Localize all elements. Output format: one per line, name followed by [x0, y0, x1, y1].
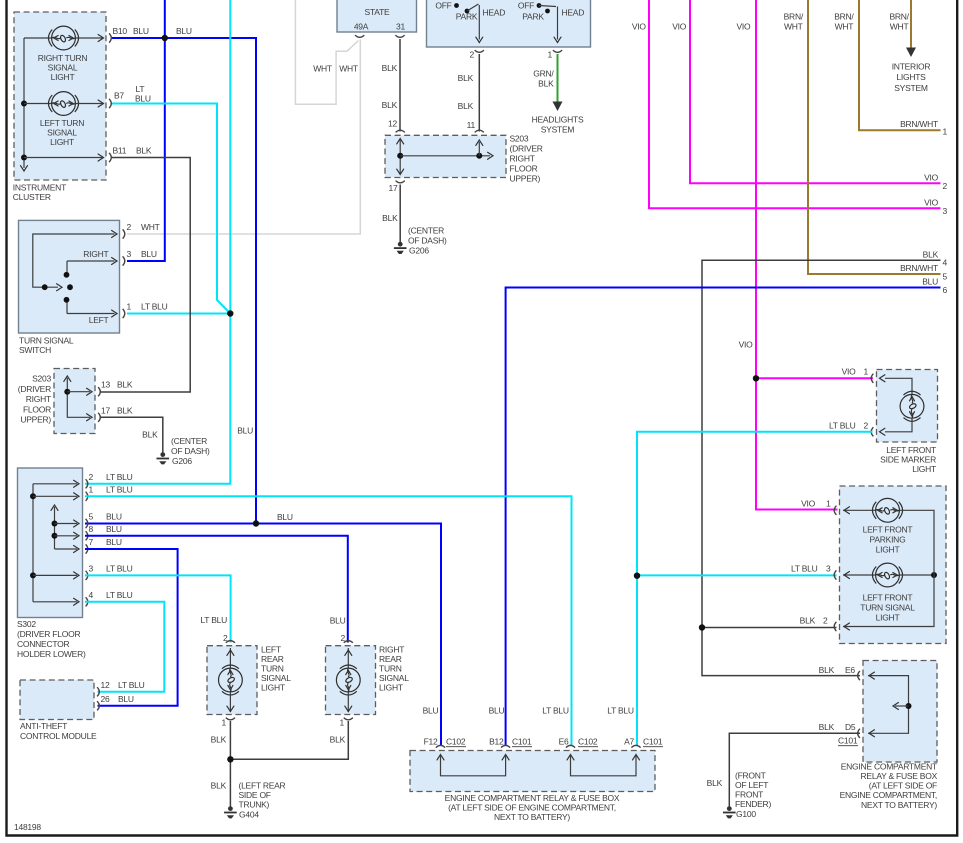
anti-theft control module box	[20, 680, 97, 741]
svg-text:BLU: BLU	[176, 26, 192, 36]
svg-text:SIGNAL: SIGNAL	[379, 673, 409, 683]
wire BLK rear lights ground to G404	[211, 721, 349, 806]
fuse box internal link E6 to A7	[567, 755, 640, 776]
svg-text:LEFT TURN: LEFT TURN	[40, 118, 84, 128]
svg-text:LIGHT: LIGHT	[261, 683, 285, 693]
svg-text:BLU: BLU	[922, 277, 938, 287]
pin 3 connector turn signal switch	[123, 249, 157, 266]
svg-text:HEADLIGHTS: HEADLIGHTS	[532, 115, 584, 125]
svg-text:BLK: BLK	[211, 735, 227, 745]
svg-text:1: 1	[222, 718, 227, 728]
svg-text:PARK: PARK	[522, 12, 544, 22]
S203 internal bus	[397, 139, 493, 175]
svg-text:3: 3	[127, 249, 132, 259]
arrow to headlights system	[532, 102, 584, 135]
wire VIO branch to side marker pin 1	[753, 367, 873, 382]
svg-text:BRN/WHT: BRN/WHT	[900, 263, 938, 273]
pin D5 connector right fuse box	[819, 722, 860, 746]
svg-text:BLK: BLK	[117, 380, 133, 390]
left rear turn signal light box	[207, 644, 291, 714]
svg-text:SIDE OF: SIDE OF	[239, 790, 271, 800]
svg-text:BLK: BLK	[923, 249, 939, 259]
svg-text:17: 17	[101, 405, 110, 415]
svg-text:LT: LT	[136, 84, 145, 94]
svg-text:17: 17	[389, 183, 398, 193]
svg-text:RIGHT: RIGHT	[83, 249, 108, 259]
svg-text:LEFT FRONT: LEFT FRONT	[886, 445, 936, 455]
pin F12 connector C102	[423, 706, 466, 748]
wire BLU vertical from top to turn signal switch pin 3	[127, 0, 165, 261]
svg-text:1: 1	[340, 718, 345, 728]
turn signal switch internal contacts	[33, 231, 117, 325]
svg-text:TURN SIGNAL: TURN SIGNAL	[860, 603, 915, 613]
instrument cluster box	[13, 12, 106, 202]
svg-text:STATE: STATE	[365, 7, 390, 17]
left rear turn signal lamp	[219, 648, 243, 712]
instrument cluster internal bus	[21, 38, 28, 171]
svg-text:13: 13	[101, 380, 110, 390]
pin 8 connector S302	[86, 524, 122, 541]
left front side marker light box	[877, 370, 938, 475]
wire BLU pin 7 S302 to anti-theft pin 26	[85, 549, 178, 706]
left front parking light lamp	[843, 498, 934, 569]
svg-text:PARKING: PARKING	[870, 535, 906, 545]
svg-text:3: 3	[89, 563, 94, 573]
svg-text:F12: F12	[424, 737, 438, 747]
svg-text:1: 1	[548, 50, 553, 60]
pin 1 connector S302	[86, 484, 133, 501]
svg-text:1: 1	[864, 367, 869, 377]
svg-text:TURN SIGNAL: TURN SIGNAL	[19, 336, 74, 346]
pin 31 connector	[395, 35, 404, 37]
svg-text:BLK: BLK	[707, 778, 723, 788]
svg-text:S302: S302	[17, 619, 36, 629]
junction dot BLU at B10	[162, 35, 168, 41]
pin 1 connector left front parking	[801, 498, 836, 515]
svg-text:FLOOR: FLOOR	[510, 164, 538, 174]
svg-text:WHT: WHT	[313, 64, 332, 74]
svg-text:BLU: BLU	[277, 512, 293, 522]
wire BLU pin 5 S302 to fuse box F12	[85, 512, 441, 746]
svg-text:BLK: BLK	[538, 79, 554, 89]
svg-text:LIGHT: LIGHT	[876, 545, 900, 555]
wire VIO 2 to right edge	[672, 0, 947, 191]
svg-text:BLU: BLU	[141, 249, 157, 259]
svg-text:TURN: TURN	[261, 663, 284, 673]
S302 internal bus left (lt blu group)	[30, 480, 79, 605]
svg-text:S203: S203	[510, 134, 529, 144]
pin 2 connector left front turn ground	[834, 622, 836, 631]
svg-text:6: 6	[943, 285, 948, 295]
wire VIO 3 to right edge	[632, 0, 948, 216]
svg-text:LIGHT: LIGHT	[379, 683, 403, 693]
svg-text:A7: A7	[624, 737, 634, 747]
svg-text:2: 2	[89, 472, 94, 482]
pin 2 connector S302	[86, 472, 133, 489]
svg-text:UPPER): UPPER)	[20, 415, 51, 425]
svg-text:LT BLU: LT BLU	[200, 615, 227, 625]
pin B10 connector	[109, 26, 149, 43]
svg-text:LT BLU: LT BLU	[106, 484, 133, 494]
svg-text:OF DASH): OF DASH)	[408, 236, 447, 246]
lamp left turn signal indicator	[24, 92, 104, 147]
svg-text:WHT: WHT	[890, 22, 909, 32]
svg-text:VIO: VIO	[632, 22, 647, 32]
pin B11 connector	[109, 146, 152, 163]
wire LT BLU pin 4 S302 to anti-theft pin 12	[85, 602, 164, 692]
svg-text:BLK: BLK	[330, 735, 346, 745]
svg-text:G404: G404	[239, 810, 259, 820]
svg-text:(DRIVER: (DRIVER	[510, 144, 543, 154]
pin 3 connector left front turn	[834, 570, 836, 579]
ground G404 (left rear side of trunk)	[224, 780, 285, 819]
pin 26 connector anti-theft	[97, 694, 134, 711]
svg-text:REAR: REAR	[261, 654, 284, 664]
svg-text:12: 12	[388, 119, 397, 129]
svg-text:FRONT: FRONT	[735, 790, 763, 800]
svg-text:G100: G100	[736, 809, 756, 819]
svg-text:VIO: VIO	[739, 340, 754, 350]
lamp right turn signal indicator	[24, 26, 104, 82]
svg-text:CLUSTER: CLUSTER	[13, 192, 51, 202]
svg-text:LT BLU: LT BLU	[106, 590, 133, 600]
pin 1 connector right rear	[340, 718, 353, 728]
svg-text:BLK: BLK	[819, 665, 835, 675]
svg-text:C102: C102	[446, 737, 466, 747]
svg-text:D5: D5	[845, 722, 856, 732]
svg-text:GRN/: GRN/	[533, 69, 554, 79]
pin 1 connector headlight switch	[548, 50, 563, 60]
engine compartment relay and fuse box bottom	[410, 751, 655, 822]
svg-text:C101: C101	[512, 737, 532, 747]
svg-text:1: 1	[826, 498, 831, 508]
pin 3 connector S302	[86, 563, 133, 580]
svg-text:BLK: BLK	[382, 213, 398, 223]
svg-text:ENGINE COMPARTMENT,: ENGINE COMPARTMENT,	[840, 790, 937, 800]
svg-text:(AT LEFT SIDE OF: (AT LEFT SIDE OF	[869, 781, 937, 791]
svg-text:OFF: OFF	[518, 1, 534, 11]
svg-text:RIGHT TURN: RIGHT TURN	[38, 53, 88, 63]
svg-text:BLU: BLU	[489, 706, 505, 716]
junction dot LT BLU at left front turn feed	[634, 563, 837, 579]
svg-text:BLK: BLK	[458, 73, 474, 83]
svg-text:LT BLU: LT BLU	[118, 680, 145, 690]
ground G206 (center of dash) middle	[394, 226, 447, 256]
svg-text:BRN/: BRN/	[784, 12, 804, 22]
svg-text:LEFT: LEFT	[261, 644, 281, 654]
svg-text:LEFT FRONT: LEFT FRONT	[863, 525, 913, 535]
svg-text:VIO: VIO	[924, 197, 939, 207]
svg-text:LIGHTS: LIGHTS	[896, 72, 926, 82]
svg-text:BLK: BLK	[136, 146, 152, 156]
svg-text:FLOOR: FLOOR	[23, 404, 51, 414]
S203 left internal bus	[64, 376, 92, 421]
pin A7 connector C101	[607, 706, 663, 748]
wire WHT from turn signal switch pin 2 to 49A	[127, 40, 360, 235]
turn signal switch box	[19, 220, 120, 355]
svg-text:(LEFT REAR: (LEFT REAR	[239, 780, 286, 790]
pin B12 connector C101	[489, 706, 532, 748]
svg-text:BLU: BLU	[118, 694, 134, 704]
svg-text:REAR: REAR	[379, 654, 402, 664]
svg-text:LIGHT: LIGHT	[876, 613, 900, 623]
svg-text:LT BLU: LT BLU	[106, 472, 133, 482]
pin 2 connector side marker	[829, 420, 873, 436]
svg-text:12: 12	[101, 680, 110, 690]
wire LT BLU main vertical to S302 pin 2	[85, 0, 230, 484]
svg-text:3: 3	[943, 206, 948, 216]
svg-text:VIO: VIO	[736, 22, 751, 32]
wire WHT from top edge to 49A (jog)	[295, 0, 358, 104]
svg-text:HOLDER LOWER): HOLDER LOWER)	[17, 649, 86, 659]
fuse box internal link F12 to B12	[437, 755, 509, 776]
svg-text:ENGINE COMPARTMENT: ENGINE COMPARTMENT	[841, 761, 937, 771]
svg-text:VIO: VIO	[842, 367, 857, 377]
svg-text:11: 11	[467, 120, 476, 130]
pin 17 connector S203 left	[98, 405, 133, 422]
svg-text:3: 3	[826, 563, 831, 573]
svg-text:BRN/: BRN/	[834, 12, 854, 22]
svg-text:5: 5	[89, 512, 94, 522]
svg-text:SYSTEM: SYSTEM	[894, 83, 928, 93]
svg-text:HEAD: HEAD	[483, 8, 506, 18]
wire BLK from S203 pin 17 to G206	[382, 185, 400, 242]
wire BLK 4 from right edge to left front turn light and fuse box E6	[702, 249, 948, 675]
pin 12 connector anti-theft	[97, 680, 145, 697]
svg-text:E6: E6	[559, 737, 569, 747]
svg-text:LIGHT: LIGHT	[50, 137, 74, 147]
svg-text:BLU: BLU	[106, 537, 122, 547]
wire GRN/BLK to headlights system	[533, 54, 557, 103]
svg-text:UPPER): UPPER)	[510, 174, 541, 184]
svg-text:BLU: BLU	[106, 524, 122, 534]
svg-text:B12: B12	[489, 737, 504, 747]
wire BLK from D5 to G100	[707, 733, 860, 806]
pin 2 connector right rear	[344, 641, 353, 643]
svg-text:BLK: BLK	[800, 615, 816, 625]
wire BLK from B11 to S203 pin 13	[100, 158, 191, 393]
pin 5 connector S302	[86, 512, 122, 529]
ignition switch box STATE (clipped at top)	[337, 0, 417, 32]
pin 2 connector headlight switch	[470, 50, 484, 60]
svg-text:2: 2	[823, 615, 828, 625]
svg-text:OFF: OFF	[435, 1, 451, 11]
svg-text:BLK: BLK	[458, 101, 474, 111]
svg-text:1: 1	[943, 127, 948, 137]
wire LT BLU pin 3 S302 to left rear turn signal	[85, 575, 231, 642]
svg-text:C101: C101	[838, 736, 858, 746]
svg-text:BRN/WHT: BRN/WHT	[900, 119, 938, 129]
junction dot LT BLU at turn signal switch pin 1	[227, 310, 233, 316]
wire BRN/WHT to interior lights system	[889, 0, 911, 48]
svg-text:(DRIVER: (DRIVER	[18, 384, 51, 394]
svg-text:(DRIVER FLOOR: (DRIVER FLOOR	[17, 629, 80, 639]
svg-text:BLU: BLU	[135, 94, 151, 104]
svg-text:RIGHT: RIGHT	[379, 644, 404, 654]
svg-text:LT BLU: LT BLU	[141, 302, 168, 312]
svg-text:SIGNAL: SIGNAL	[261, 673, 291, 683]
svg-text:INTERIOR: INTERIOR	[892, 62, 931, 72]
svg-text:2: 2	[943, 181, 948, 191]
svg-text:OF LEFT: OF LEFT	[735, 780, 768, 790]
svg-text:26: 26	[101, 694, 110, 704]
svg-text:LT BLU: LT BLU	[829, 420, 856, 430]
svg-text:7: 7	[89, 537, 94, 547]
headlight switch box (clipped at top)	[427, 0, 591, 47]
svg-text:NEXT TO BATTERY): NEXT TO BATTERY)	[494, 812, 570, 822]
svg-text:SYSTEM: SYSTEM	[541, 125, 575, 135]
switch B contacts and wiper	[537, 3, 561, 42]
svg-text:4: 4	[943, 258, 948, 268]
svg-text:RIGHT: RIGHT	[26, 394, 51, 404]
svg-text:RELAY & FUSE BOX: RELAY & FUSE BOX	[861, 771, 938, 781]
wire BLK from STATE pin 31 to S203 pin 12	[382, 39, 400, 132]
ground G206 (center of dash) left	[157, 436, 211, 466]
wire BLU from B10 via junction to pin 5 S302 and F12	[112, 26, 256, 524]
svg-text:RIGHT: RIGHT	[510, 154, 535, 164]
svg-text:LIGHT: LIGHT	[912, 464, 936, 474]
svg-text:2: 2	[127, 222, 132, 232]
wire LT BLU turn signal switch pin 1	[127, 313, 230, 315]
wire BLU pin 8 S302 to right rear turn signal	[85, 536, 348, 643]
pin 17 connector S203	[389, 181, 405, 193]
svg-text:31: 31	[396, 22, 405, 32]
S302 internal bus right (blu group)	[51, 505, 79, 553]
svg-text:B7: B7	[114, 91, 124, 101]
svg-text:WHT: WHT	[339, 64, 358, 74]
wire BLK from switch pin 2 to S203 pin 11	[458, 54, 480, 132]
splice S203 (driver right floor upper) left	[18, 369, 95, 434]
svg-text:BLU: BLU	[330, 615, 346, 625]
svg-text:(CENTER: (CENTER	[171, 436, 207, 446]
svg-text:2: 2	[864, 420, 869, 430]
svg-text:(FRONT: (FRONT	[735, 770, 766, 780]
splice S203 (driver right floor upper) middle	[385, 134, 543, 184]
left front parking/turn signal light box	[840, 486, 947, 644]
svg-text:5: 5	[943, 272, 948, 282]
svg-text:BLK: BLK	[117, 405, 133, 415]
svg-text:2: 2	[470, 50, 475, 60]
svg-text:CONNECTOR: CONNECTOR	[17, 639, 69, 649]
svg-text:INSTRUMENT: INSTRUMENT	[13, 183, 66, 193]
svg-text:FENDER): FENDER)	[735, 799, 771, 809]
wire VIO 1 to left front parking light (vertical from top)	[736, 0, 837, 510]
svg-text:C101: C101	[643, 737, 663, 747]
wire LT BLU pin 1 S302 to fuse box E6	[85, 496, 572, 745]
wire BRN/WHT 5 to right edge	[784, 0, 948, 282]
pin 1 connector turn signal switch	[123, 302, 168, 319]
right rear turn signal light box	[326, 644, 410, 714]
pin 1 connector left rear	[222, 718, 235, 728]
svg-text:BRN/: BRN/	[889, 12, 909, 22]
connector S302 (driver floor connector holder lower) box	[17, 468, 86, 659]
pin 13 connector S203 left	[98, 380, 133, 397]
right rear turn signal lamp	[336, 648, 360, 712]
pin E6 connector right fuse box	[858, 671, 860, 680]
pin B7 connector	[109, 84, 151, 108]
svg-text:49A: 49A	[354, 22, 369, 32]
svg-text:BLU: BLU	[423, 706, 439, 716]
svg-text:NEXT TO BATTERY): NEXT TO BATTERY)	[861, 800, 937, 810]
pin 2 connector turn signal switch	[123, 222, 160, 239]
svg-text:SWITCH: SWITCH	[19, 345, 51, 355]
svg-text:SIGNAL: SIGNAL	[48, 63, 78, 73]
instrument cluster B11 lead	[24, 154, 104, 161]
svg-text:LIGHT: LIGHT	[51, 72, 75, 82]
pin 1 connector side marker	[871, 374, 873, 383]
svg-text:CONTROL MODULE: CONTROL MODULE	[20, 731, 97, 741]
svg-text:HEAD: HEAD	[562, 8, 585, 18]
svg-text:B11: B11	[113, 146, 127, 156]
side marker lamp	[880, 375, 924, 436]
svg-text:BLU: BLU	[133, 26, 149, 36]
wire BLK branch to left front turn signal pin 2	[699, 615, 837, 630]
svg-text:WHT: WHT	[141, 222, 160, 232]
left front turn signal light lamp	[843, 563, 937, 630]
svg-text:BLU: BLU	[237, 426, 253, 436]
wire LT BLU to side marker pin 2 from A7 net	[637, 432, 873, 746]
wire BLK from pin 17 to G206 left	[101, 417, 163, 452]
wire BLU 6 from right edge to fuse box B12	[506, 277, 948, 746]
pin 7 connector S302	[86, 537, 122, 554]
svg-text:LEFT FRONT: LEFT FRONT	[863, 593, 913, 603]
wire BRN/WHT 1 to right edge	[834, 0, 947, 137]
svg-text:LT BLU: LT BLU	[542, 706, 569, 716]
svg-text:WHT: WHT	[835, 22, 854, 32]
svg-text:148198: 148198	[14, 822, 41, 832]
svg-text:WHT: WHT	[784, 22, 803, 32]
svg-text:S203: S203	[32, 374, 51, 384]
svg-text:LT BLU: LT BLU	[607, 706, 634, 716]
svg-text:SIDE MARKER: SIDE MARKER	[880, 455, 936, 465]
svg-text:B10: B10	[113, 26, 128, 36]
svg-text:LT BLU: LT BLU	[791, 563, 818, 573]
svg-text:OF DASH): OF DASH)	[171, 446, 210, 456]
svg-text:1: 1	[89, 484, 94, 494]
svg-text:BLK: BLK	[819, 722, 835, 732]
svg-text:BLK: BLK	[382, 63, 398, 73]
svg-text:(CENTER: (CENTER	[408, 226, 444, 236]
svg-text:8: 8	[89, 524, 94, 534]
svg-text:BLK: BLK	[211, 780, 227, 790]
svg-text:TURN: TURN	[379, 663, 402, 673]
svg-text:LT BLU: LT BLU	[106, 563, 133, 573]
arrow to interior lights system	[892, 48, 931, 93]
pin E6 connector C102	[542, 706, 598, 748]
svg-text:TRUNK): TRUNK)	[239, 800, 270, 810]
svg-text:ENGINE COMPARTMENT RELAY & FUS: ENGINE COMPARTMENT RELAY & FUSE BOX	[445, 793, 620, 803]
svg-text:G206: G206	[172, 456, 192, 466]
pin 2 connector left rear	[226, 641, 235, 643]
svg-text:E6: E6	[845, 665, 855, 675]
svg-text:BLK: BLK	[142, 430, 158, 440]
svg-text:BLK: BLK	[382, 100, 398, 110]
pin 11 connector S203	[475, 130, 484, 132]
svg-text:VIO: VIO	[801, 498, 816, 508]
wire LT BLU from B7 with jog to main vertical	[112, 104, 230, 314]
ground G100 (front of left front fender)	[723, 770, 771, 819]
svg-text:4: 4	[89, 590, 94, 600]
pin 49A connector	[355, 35, 364, 37]
svg-text:VIO: VIO	[672, 22, 687, 32]
svg-text:LEFT: LEFT	[89, 315, 109, 325]
pin 4 connector S302	[86, 590, 133, 607]
svg-text:G206: G206	[409, 246, 429, 256]
svg-text:1: 1	[127, 302, 132, 312]
svg-text:VIO: VIO	[924, 172, 939, 182]
pin 12 connector S203	[396, 130, 405, 132]
svg-text:SIGNAL: SIGNAL	[47, 128, 77, 138]
